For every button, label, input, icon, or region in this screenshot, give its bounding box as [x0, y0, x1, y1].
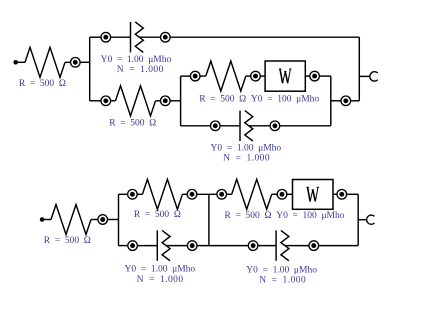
- wire (block2 left bar): [180, 76, 182, 126]
- wire: [287, 193, 293, 195]
- node (R3 left): [190, 71, 200, 81]
- Warburg element W1: [265, 61, 305, 91]
- wire (right rail): [358, 37, 360, 101]
- svg-text:Y0 = 1.00 μMho: Y0 = 1.00 μMho: [101, 55, 172, 65]
- svg-text:N = 1.000: N = 1.000: [259, 276, 306, 286]
- wire: [18, 61, 25, 63]
- terminal (bottom circuit output, open circle): [367, 215, 375, 224]
- wire: [65, 61, 70, 63]
- node (R5 left): [128, 190, 138, 200]
- wire: [80, 61, 90, 63]
- svg-text:R = 500 Ω: R = 500 Ω: [44, 236, 91, 246]
- wire: [320, 75, 331, 77]
- Warburg element W2: [293, 180, 334, 210]
- wire: [111, 100, 116, 102]
- wire: [319, 245, 359, 247]
- node (CPE4 left): [248, 241, 258, 251]
- resistor R5: [142, 179, 182, 209]
- wire: [181, 75, 191, 77]
- wire: [197, 193, 217, 195]
- wire: [90, 36, 101, 38]
- node (CPE2 left): [211, 121, 221, 131]
- wire: [182, 193, 187, 195]
- wire: [305, 75, 309, 77]
- resistor R1: [25, 47, 65, 77]
- CPE CPE1: [111, 22, 161, 52]
- wire: [170, 36, 359, 38]
- svg-text:R = 500 Ω: R = 500 Ω: [109, 119, 156, 129]
- node (block2 output): [341, 96, 351, 106]
- wire: [91, 219, 98, 221]
- terminal dot (top circuit input): [13, 60, 18, 65]
- node (CPE2 right): [270, 121, 280, 131]
- wire: [137, 193, 142, 195]
- wire: [331, 100, 341, 102]
- wire: [260, 75, 265, 77]
- wire: [197, 245, 248, 247]
- node (CPE1 left): [101, 32, 111, 42]
- wire (block2 right bar): [330, 76, 332, 126]
- node (CPE4 right): [309, 241, 319, 251]
- node (R2 left): [101, 96, 111, 106]
- wire: [181, 125, 211, 127]
- svg-text:Y0 = 1.00 μMho: Y0 = 1.00 μMho: [125, 265, 196, 275]
- svg-text:N = 1.000: N = 1.000: [137, 275, 184, 285]
- wire (blockA left bar): [118, 194, 120, 245]
- resistor R3: [206, 61, 246, 91]
- wire: [119, 193, 128, 195]
- node (after R4): [98, 215, 108, 225]
- wire: [44, 219, 51, 221]
- wire: [351, 100, 360, 102]
- wire: [272, 193, 277, 195]
- svg-text:R = 500 Ω: R = 500 Ω: [134, 210, 181, 220]
- wire: [246, 75, 251, 77]
- wire: [170, 100, 180, 102]
- wire: [333, 193, 337, 195]
- svg-text:R = 500 Ω Y0 = 100 μMho: R = 500 Ω Y0 = 100 μMho: [199, 95, 319, 105]
- resistor R2: [116, 86, 156, 116]
- wire: [119, 245, 128, 247]
- wire: [200, 75, 206, 77]
- node (CPE1 right): [161, 32, 171, 42]
- svg-text:N = 1.000: N = 1.000: [117, 65, 164, 75]
- wire: [108, 219, 119, 221]
- CPE CPE2: [220, 111, 270, 141]
- CPE CPE4: [258, 230, 309, 260]
- wire (blockB right bar): [357, 194, 359, 245]
- wire: [156, 100, 161, 102]
- svg-text:R = 500 Ω Y0 = 100 μMho: R = 500 Ω Y0 = 100 μMho: [225, 211, 345, 221]
- node (CPE3 left): [128, 241, 138, 251]
- node (R6 left): [217, 190, 227, 200]
- resistor R6: [232, 179, 272, 209]
- resistor R4: [51, 205, 91, 235]
- svg-text:N = 1.000: N = 1.000: [223, 153, 270, 163]
- node (R3 right / W1 left): [251, 71, 261, 81]
- wire: [280, 125, 331, 127]
- node (W2 right): [337, 190, 347, 200]
- node (after R1): [71, 58, 81, 68]
- wire: [90, 100, 101, 102]
- terminal (top circuit output, open circle): [370, 72, 378, 81]
- node (W1 right): [310, 71, 320, 81]
- svg-text:Y0 = 1.00 μMho: Y0 = 1.00 μMho: [246, 265, 317, 275]
- node (R6 right / W2 left): [277, 190, 287, 200]
- terminal dot (bottom circuit input): [40, 217, 45, 222]
- svg-text:R = 500 Ω: R = 500 Ω: [19, 79, 66, 89]
- svg-text:Y0 = 1.00 μMho: Y0 = 1.00 μMho: [211, 143, 282, 153]
- node (R5 right): [187, 190, 197, 200]
- wire (output stub): [358, 219, 366, 221]
- wire (middle bar): [208, 194, 210, 245]
- wire: [227, 193, 232, 195]
- wire (output stub): [359, 75, 370, 77]
- node (R2 right): [161, 96, 171, 106]
- wire (left branch bar): [89, 37, 91, 101]
- node (CPE3 right): [187, 241, 197, 251]
- CPE CPE3: [138, 230, 188, 260]
- wire: [347, 193, 359, 195]
